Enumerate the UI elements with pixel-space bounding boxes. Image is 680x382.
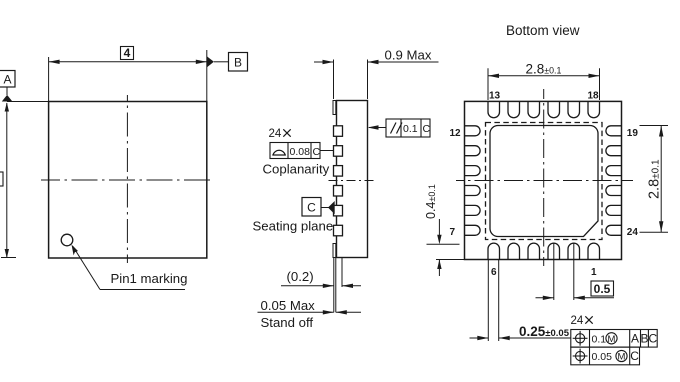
svg-text:13: 13 <box>489 90 501 101</box>
svg-text:M: M <box>618 352 626 363</box>
coplanarity feature frame <box>270 143 320 159</box>
svg-text:0.5: 0.5 <box>594 282 611 296</box>
svg-text:Stand off: Stand off <box>261 315 314 330</box>
position symbol row2 <box>573 349 588 364</box>
svg-text:0.05 Max: 0.05 Max <box>261 298 316 313</box>
svg-text:0.9 Max: 0.9 Max <box>385 47 432 62</box>
svg-text:0.25±0.05: 0.25±0.05 <box>519 324 570 339</box>
dim 0.9 Max <box>314 60 439 100</box>
svg-text:M: M <box>608 334 616 345</box>
boxed dimension 4 <box>121 47 134 60</box>
svg-text:2.8±0.1: 2.8±0.1 <box>646 159 662 199</box>
left pins column <box>465 126 481 236</box>
dim (0.2) <box>281 285 361 287</box>
pin numbers <box>450 90 639 278</box>
datum C triangle <box>328 201 335 214</box>
bottom view horizontal centerline <box>456 180 633 182</box>
svg-text:2.8±0.1: 2.8±0.1 <box>526 62 562 77</box>
svg-text:0.05: 0.05 <box>592 351 613 363</box>
svg-text:B: B <box>234 56 242 70</box>
horizontal centerline <box>41 179 214 181</box>
bottom view vertical centerline <box>543 89 545 266</box>
pin squares <box>334 126 343 236</box>
svg-text:Coplanarity: Coplanarity <box>263 162 330 177</box>
top edge extension to left <box>7 101 49 103</box>
exposed pad <box>490 126 598 237</box>
svg-text:Bottom view: Bottom view <box>506 23 580 38</box>
svg-text:1: 1 <box>591 267 597 278</box>
svg-text:24: 24 <box>571 315 584 327</box>
top lead strip <box>333 101 336 115</box>
svg-text:0.1: 0.1 <box>403 123 418 135</box>
svg-text:19: 19 <box>627 128 639 139</box>
dim 2.8 right <box>640 126 669 233</box>
svg-text:(0.2): (0.2) <box>287 269 314 284</box>
datum A triangle <box>2 95 13 102</box>
position symbol row1 <box>573 331 588 346</box>
svg-text:C: C <box>307 201 316 215</box>
profile of surface symbol <box>272 150 286 155</box>
body side view <box>337 101 368 258</box>
boxed dimension 0.5 <box>591 281 614 296</box>
svg-text:C: C <box>313 146 321 158</box>
svg-text:0.1: 0.1 <box>592 333 607 345</box>
arrow up <box>5 103 9 112</box>
pin1 marking circle <box>61 234 73 246</box>
arrow left of dim 4 <box>49 60 60 64</box>
M circle row1 <box>606 333 617 344</box>
bottom pins row <box>488 243 600 259</box>
bottom edge extension line <box>1 257 16 259</box>
svg-text:C: C <box>423 123 431 135</box>
exposed pad dashed boundary <box>486 123 603 240</box>
svg-text:0.4±0.1: 0.4±0.1 <box>424 184 438 219</box>
arrow down <box>5 249 9 258</box>
dim 2.8 top <box>488 68 600 100</box>
parallelism feature frame <box>386 119 430 137</box>
dim 0.05 Max stand off <box>258 311 362 313</box>
svg-text:B: B <box>640 332 648 346</box>
svg-text:6: 6 <box>491 267 497 278</box>
arrow right of dim 4 <box>196 60 207 64</box>
svg-text:24: 24 <box>627 227 639 238</box>
position feature frame row 1 <box>571 330 657 348</box>
svg-text:C: C <box>630 349 639 363</box>
svg-text:18: 18 <box>588 90 600 101</box>
svg-text:A: A <box>3 73 11 87</box>
svg-text:4: 4 <box>124 46 131 60</box>
svg-text:0.08: 0.08 <box>290 146 311 158</box>
svg-text:Seating plane: Seating plane <box>253 219 334 234</box>
dim 0.25 bottom left <box>470 260 571 342</box>
right pins column <box>606 126 622 236</box>
svg-text:24: 24 <box>269 128 282 140</box>
top pins row <box>488 101 600 117</box>
dimension 4 horizontal: extension lines <box>49 50 207 102</box>
datum B triangle <box>207 56 214 67</box>
vertical dimension line left <box>6 103 8 258</box>
svg-text:C: C <box>648 332 657 346</box>
package body top view <box>49 102 207 259</box>
side view centerline <box>329 180 375 182</box>
bottom lead strip <box>333 244 336 258</box>
dim 0.5 bottom <box>536 244 615 301</box>
boxed dimension fragment at left edge <box>0 172 3 186</box>
stand-off lines below body <box>334 258 342 313</box>
datum A box <box>0 71 15 88</box>
dim 0.4 left <box>427 219 465 276</box>
datum B box <box>229 53 248 72</box>
package outline bottom view <box>465 101 622 259</box>
svg-text:12: 12 <box>450 128 462 139</box>
svg-text:A: A <box>631 332 639 346</box>
svg-text:Pin1 marking: Pin1 marking <box>111 271 188 286</box>
leader arrow parallelism <box>369 127 386 129</box>
M circle row2 <box>616 350 627 361</box>
vertical centerline <box>126 95 128 263</box>
datum C box <box>302 198 321 217</box>
leader Pin1 <box>73 247 185 290</box>
svg-text:7: 7 <box>450 227 456 238</box>
position feature frame row 2 <box>571 347 640 365</box>
